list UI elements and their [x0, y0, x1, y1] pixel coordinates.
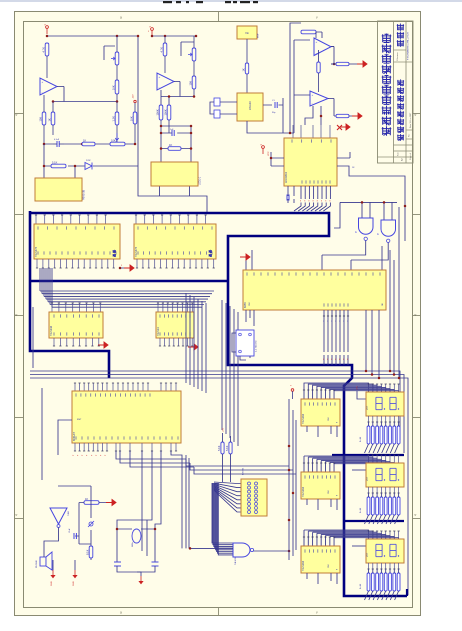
- wires buffer U7 top stubs: [157, 303, 159, 312]
- svg-text:5.1K: 5.1K: [52, 160, 58, 164]
- power port between latches: [120, 267, 125, 269]
- svg-text:1: 1: [327, 321, 328, 323]
- ADC left pins VCC: [271, 152, 284, 166]
- wires MCU bottom routing: [116, 451, 194, 551]
- svg-text:1K: 1K: [85, 497, 88, 501]
- ADC0804 U3: [284, 138, 337, 186]
- wire inverter to speaker: [44, 528, 59, 554]
- resistor array #1: [367, 426, 370, 444]
- title block 指导教师 谭春华: [397, 134, 404, 141]
- svg-text:4.7K: 4.7K: [42, 47, 46, 53]
- wire lower node row 2: [44, 144, 138, 178]
- wires 74LS164 #3 top pins: [303, 537, 305, 546]
- svg-text:8031AH: 8031AH: [73, 432, 76, 441]
- svg-text:VCC: VCC: [367, 552, 369, 557]
- buffer U7 74LS14: [156, 312, 194, 338]
- svg-text:10K: 10K: [112, 85, 116, 90]
- svg-text:4: 4: [414, 314, 418, 316]
- svg-text:1: 1: [347, 321, 348, 323]
- svg-text:-: -: [159, 86, 160, 90]
- resistor R27 5.1K: [229, 442, 232, 454]
- svg-text:10K: 10K: [130, 116, 134, 121]
- resistor R20 output horizontal: [336, 62, 349, 65]
- resistor R1 4.7K: [45, 43, 49, 56]
- svg-text:74LS164: 74LS164: [302, 560, 305, 571]
- svg-text:7406: 7406: [68, 510, 70, 516]
- bus main data bus loop: [30, 213, 407, 596]
- title block name 赵发才: [397, 40, 404, 47]
- resistor R26 5.1K: [221, 442, 224, 454]
- svg-text:-: -: [42, 91, 43, 95]
- wires 74LS164 #2 bottom pins: [307, 499, 337, 510]
- wires 74LS164 #1 top pins: [303, 390, 305, 399]
- svg-text:0.1uF: 0.1uF: [54, 139, 60, 141]
- trimmer RP1: [115, 52, 119, 65]
- wire opamp outputs to ADC: [305, 106, 321, 125]
- resistor R8 1K horizontal: [82, 142, 95, 146]
- svg-text:CLK: CLK: [328, 563, 330, 568]
- svg-text:2CW: 2CW: [86, 160, 91, 162]
- svg-text:1K: 1K: [48, 118, 52, 121]
- svg-text:8: 8: [323, 359, 324, 361]
- zone tick marks on frame: [218, 12, 220, 22]
- ground crystal: [140, 576, 142, 581]
- buffer U6 74LS244: [49, 312, 103, 338]
- svg-text:8: 8: [327, 359, 328, 361]
- zener diode 2CW: [85, 163, 92, 170]
- svg-text:1: 1: [343, 321, 344, 323]
- resistor R3 10K: [115, 80, 119, 94]
- svg-text:8: 8: [335, 359, 336, 361]
- svg-text:4: 4: [15, 314, 19, 316]
- svg-text:100K: 100K: [156, 109, 160, 115]
- svg-text:Sheet of: Sheet of: [409, 153, 412, 160]
- capacitor C6 30pF: [152, 562, 159, 566]
- wire cap network LED driver: [161, 126, 191, 162]
- latch U4 74LS373: [34, 224, 120, 259]
- 7-segment display DS3: [366, 539, 404, 563]
- power port near 164 column: [291, 389, 294, 392]
- bus latch lower branch: [30, 280, 228, 283]
- svg-text:8×1K: 8×1K: [359, 436, 362, 442]
- svg-text:8: 8: [331, 359, 332, 361]
- svg-text:-: -: [316, 51, 317, 55]
- resistor R14 100K: [159, 105, 163, 120]
- speaker LS1: [40, 557, 46, 566]
- wires buffer U6 bottom stubs: [53, 338, 55, 346]
- shift register 74LS164 #3: [301, 546, 340, 573]
- flip-flop 74LS74 U11: [236, 330, 254, 356]
- wires 164-3 bundle: [304, 530, 369, 546]
- power flag analog out 1: [357, 61, 367, 67]
- capacitor C1 right of ZZ1E20: [263, 98, 283, 112]
- resistor R15 100K: [167, 105, 171, 120]
- 7-segment display DS2: [366, 463, 404, 487]
- svg-text:4.7K: 4.7K: [160, 47, 164, 53]
- resistor R4: [115, 112, 119, 125]
- wires 8255 top pins: [246, 246, 382, 270]
- svg-text:8: 8: [304, 201, 305, 203]
- svg-text:CLK: CLK: [328, 416, 330, 421]
- NAND gate U9B: [381, 220, 396, 236]
- op-amp U2B: [310, 91, 328, 106]
- title text 废水处理微机控制系统: [382, 126, 392, 136]
- wires 74LS164 #2 top pins: [303, 463, 305, 472]
- wires 164-2 bundle: [304, 456, 369, 472]
- wire 74LS74 loop: [232, 333, 250, 360]
- bus 7seg group1 branch: [332, 454, 404, 456]
- svg-text:GND: GND: [51, 581, 53, 586]
- svg-text:-12V: -12V: [133, 94, 135, 99]
- trimmer RP2: [192, 48, 196, 61]
- feedback loop wire op-amp1: [104, 46, 115, 60]
- peripheral interface 8255 U10: [243, 270, 386, 310]
- MCU U8 8031: [72, 391, 181, 443]
- wire crystal network: [117, 529, 155, 572]
- ADC crystal pins: [288, 186, 294, 203]
- wires 8255 bottom middle pins to bus: [323, 310, 325, 365]
- ADC bottom data pins to bus: [294, 186, 301, 211]
- svg-text:100K: 100K: [164, 109, 168, 115]
- svg-text:8.1K: 8.1K: [86, 549, 90, 555]
- wires ADC top pins: [292, 125, 294, 138]
- cropped filename text at very top: [163, 1, 172, 3]
- svg-text:1: 1: [339, 321, 340, 323]
- svg-text:Filename: Filename: [397, 51, 399, 60]
- svg-text:74LS164: 74LS164: [302, 413, 305, 424]
- svg-text:74LS164: 74LS164: [302, 486, 305, 497]
- crystal element left of ZZ1E20: [214, 98, 220, 106]
- wires right vertical rails from gates: [390, 207, 399, 378]
- svg-text:1K: 1K: [169, 143, 172, 147]
- svg-text:8: 8: [329, 201, 330, 203]
- inverter 7406: [50, 508, 67, 524]
- svg-text:CLK: CLK: [249, 301, 251, 306]
- wires 7seg #1 top pins: [368, 384, 370, 392]
- bus 7seg group2 branch: [344, 520, 404, 522]
- sensor box Vin: [237, 26, 257, 39]
- NAND gate input rail: [334, 202, 397, 228]
- power flag below U6: [98, 342, 108, 348]
- svg-text:5.1K: 5.1K: [217, 445, 221, 451]
- DIP switch S2: [241, 479, 267, 516]
- wire PBRS08 top pins: [44, 166, 138, 178]
- wires 7seg #3 bottom pins: [368, 563, 370, 569]
- svg-text:8×1K: 8×1K: [359, 583, 362, 589]
- svg-text:PHONE: PHONE: [36, 560, 38, 568]
- crystal Y1 6MHz: [132, 529, 141, 543]
- wires thick bus group3 hook: [406, 589, 408, 596]
- transducer ZZ1E20: [237, 93, 263, 121]
- 7-segment display DS1: [366, 392, 404, 416]
- svg-text:8×1K: 8×1K: [359, 507, 362, 513]
- svg-text:10K: 10K: [39, 117, 43, 122]
- ADC right pins: [337, 152, 405, 241]
- svg-text:4: 4: [414, 114, 418, 116]
- svg-text:889F: 889F: [258, 33, 260, 38]
- power flag right of ADC: [337, 125, 342, 130]
- shift register 74LS164 #1: [301, 399, 340, 426]
- svg-text:+5V: +5V: [223, 428, 225, 432]
- wires left long verticals: [33, 307, 42, 480]
- capacitor C3 1uF: [171, 130, 173, 136]
- svg-text:Rev: Rev: [409, 134, 411, 137]
- svg-text:6MHz: 6MHz: [132, 542, 134, 547]
- svg-text:8: 8: [339, 359, 340, 361]
- wire op-amp1 output node: [53, 87, 117, 102]
- wires MCU top pins left group: [74, 383, 76, 391]
- resistor R10 5.1K horizontal: [51, 164, 66, 168]
- svg-text:ADC0804: ADC0804: [285, 172, 288, 183]
- wires buffer U6 top stubs: [51, 303, 53, 312]
- svg-text:8: 8: [347, 359, 348, 361]
- wires 7seg #2 bottom pins: [368, 487, 370, 493]
- svg-text:LED1-1: LED1-1: [199, 176, 202, 185]
- wires buffer U7 bottom stubs: [159, 338, 161, 346]
- op-amp U2A: [314, 38, 331, 56]
- wires NAND outputs to 8255: [322, 241, 388, 261]
- svg-text:1-1 74LS74: 1-1 74LS74: [256, 340, 258, 352]
- sheet inner border: [24, 22, 413, 608]
- wires latch to buffer horizontals: [40, 290, 214, 292]
- wires latch U4 top pins: [35, 215, 37, 224]
- power port VCC1: [46, 26, 49, 29]
- op-amp U1A: [40, 78, 57, 95]
- op-amp U1B: [157, 73, 174, 90]
- svg-text:10K: 10K: [189, 81, 193, 86]
- wires DIP resistor hatch: [214, 482, 241, 484]
- power flag above 8255: [240, 254, 250, 260]
- wires 8255 bottom right pins: [366, 310, 379, 378]
- svg-text:&: &: [377, 232, 379, 236]
- svg-text:4: 4: [15, 114, 19, 116]
- wires 74LS164 #1 bottom pins: [307, 426, 337, 437]
- push button S1: [89, 522, 93, 526]
- resistor R18 horizontal: [301, 30, 316, 34]
- svg-text:+: +: [316, 40, 318, 44]
- wire VCC stub 7seg3: [352, 545, 366, 547]
- svg-text:-: -: [312, 102, 313, 106]
- wire LED1-1 bottom pins: [160, 186, 190, 196]
- wires 8255 bottom left pins: [246, 310, 254, 326]
- svg-text:PBRS-08: PBRS-08: [83, 189, 86, 200]
- svg-text:8: 8: [321, 201, 322, 203]
- svg-text:1K: 1K: [242, 68, 246, 71]
- svg-text:8: 8: [308, 201, 309, 203]
- capacitor C4 10uF: [73, 533, 75, 539]
- LED display block LED1-1: [151, 162, 198, 186]
- potentiometer RW1 horizontal: [110, 142, 125, 146]
- svg-text:a: a: [120, 16, 122, 20]
- shift register 74LS164 #2: [301, 472, 340, 499]
- svg-text:8: 8: [317, 201, 318, 203]
- wires latch U4 bottom pins: [36, 259, 38, 268]
- resistor R5 10K: [42, 112, 46, 125]
- wires MCU top pins middle group: [112, 383, 114, 391]
- svg-text:10uF: 10uF: [69, 528, 71, 533]
- wires 7seg #2 top pins: [368, 455, 370, 463]
- svg-text:1: 1: [335, 321, 336, 323]
- resistor array #3: [367, 573, 370, 591]
- capacitor C5 30pF: [114, 562, 121, 566]
- resistor R13 10K: [192, 76, 196, 89]
- wires MCU top pins right group: [160, 383, 162, 391]
- wire VCC1 rail: [47, 36, 207, 213]
- svg-text:74LS30: 74LS30: [235, 557, 237, 565]
- svg-text:Vin: Vin: [245, 31, 249, 35]
- resistor R17 1K: [245, 63, 248, 74]
- wires MCU bottom pins: [74, 443, 76, 451]
- svg-text:Size: Size: [398, 152, 400, 156]
- svg-text:8255: 8255: [243, 302, 247, 308]
- sensor PBRS08: [35, 178, 82, 201]
- resistor R6 1K: [51, 112, 55, 125]
- svg-text:VCC: VCC: [367, 476, 369, 481]
- svg-text:74LS14: 74LS14: [157, 327, 160, 336]
- wire Vin to ZZ1E20: [246, 39, 248, 93]
- svg-text:4: 4: [15, 514, 19, 516]
- svg-text:CLK: CLK: [328, 489, 330, 494]
- wire VCC stub 7seg2: [352, 469, 366, 471]
- wire op-amp2 output node: [161, 82, 194, 106]
- wire stage1 to stage2: [318, 50, 320, 62]
- wire reset network: [75, 503, 91, 561]
- wire VCC2 rail: [152, 35, 196, 37]
- resistor R24 1K horizontal: [84, 501, 99, 505]
- resistor R11 4.7K: [163, 43, 167, 56]
- resistor array #2: [367, 497, 370, 515]
- wires 74LS164 #3 bottom pins: [307, 573, 337, 584]
- svg-text:VCC: VCC: [367, 405, 369, 410]
- svg-text:4: 4: [414, 514, 418, 516]
- svg-text:+: +: [42, 80, 44, 84]
- svg-text:+5V: +5V: [357, 386, 359, 390]
- wire MCU reset pin: [58, 420, 72, 455]
- bus left vertical branch: [30, 211, 109, 378]
- power port VCC2: [151, 28, 154, 31]
- wire three long horizontal rails: [30, 371, 400, 440]
- svg-text:5.1K: 5.1K: [225, 445, 229, 451]
- resistor R21 output horizontal: [336, 114, 349, 117]
- svg-text:8: 8: [300, 201, 301, 203]
- window top edge line: [0, 0, 462, 2]
- svg-text:8: 8: [313, 201, 314, 203]
- svg-text:1: 1: [331, 321, 332, 323]
- ground flags reset: [52, 570, 54, 575]
- svg-text:a: a: [120, 611, 122, 615]
- svg-text:&: &: [355, 230, 357, 234]
- power flag reset: [106, 500, 116, 506]
- svg-text:RST: RST: [77, 419, 82, 421]
- svg-text:ZZ1E20: ZZ1E20: [249, 101, 252, 110]
- wire ZZ1E20 output loop: [247, 23, 301, 133]
- svg-text:F:\SCH\WASTE-CTRL-2.SCH: F:\SCH\WASTE-CTRL-2.SCH: [407, 32, 410, 60]
- wires 164 column left feeders: [289, 399, 296, 560]
- power flag below U7: [188, 344, 198, 350]
- svg-text:1: 1: [323, 321, 324, 323]
- NAND gate 74LS30 U12: [233, 543, 250, 557]
- latch U5 74LS373: [135, 215, 137, 224]
- resistor R7 10K: [133, 112, 137, 124]
- svg-text:74LS244: 74LS244: [50, 325, 53, 336]
- capacitor C2 0.1uF: [56, 141, 58, 147]
- feedback loop op-amp2: [181, 42, 194, 56]
- svg-text:1K: 1K: [83, 138, 86, 142]
- NAND gate U9A: [359, 218, 374, 234]
- resistor R19: [317, 62, 320, 73]
- resistor R25 8.1K: [89, 546, 93, 558]
- svg-text:74LS373: 74LS373: [35, 246, 38, 257]
- title block frame: [378, 21, 414, 163]
- wires middle vertical bundle latch to MCU region: [185, 293, 187, 383]
- svg-text:+: +: [159, 75, 161, 79]
- svg-text:Date 10-Jun-2007: Date 10-Jun-2007: [409, 113, 412, 128]
- wire lower node row 1: [44, 143, 135, 145]
- wires latch U5 bottom pins: [136, 259, 138, 268]
- svg-text:8: 8: [343, 359, 344, 361]
- power flag analog out 2: [352, 113, 362, 119]
- svg-text:+: +: [312, 93, 314, 97]
- svg-text:VCC: VCC: [268, 151, 270, 156]
- svg-text:74LS373: 74LS373: [135, 246, 138, 257]
- svg-text:1.2K: 1.2K: [112, 116, 116, 122]
- svg-text:GND: GND: [73, 581, 75, 586]
- wires 7seg #3 top pins: [368, 531, 370, 539]
- wires 7seg #1 bottom pins: [368, 416, 370, 422]
- svg-text:8: 8: [325, 201, 326, 203]
- resistor R16 1K horizontal: [168, 147, 181, 151]
- wire 74LS30 output: [186, 544, 289, 551]
- wires 164-1 to 7seg-1 bundle: [304, 383, 369, 399]
